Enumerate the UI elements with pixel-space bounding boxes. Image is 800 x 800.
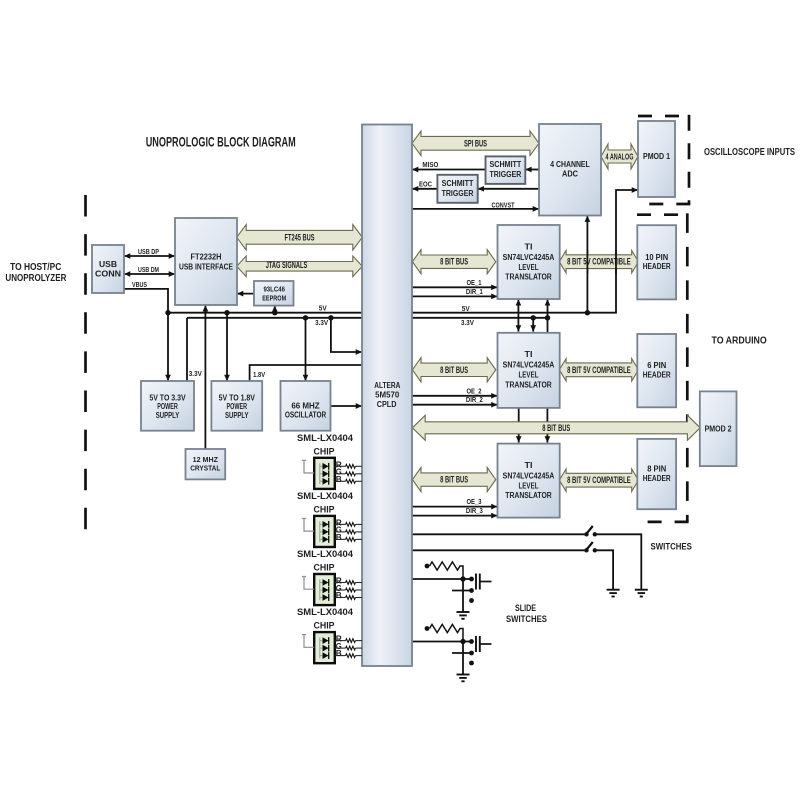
svg-text:LEVEL: LEVEL <box>519 370 539 380</box>
wire: DIR_3 <box>412 515 498 517</box>
bus arrow: FT245 BUS <box>237 225 363 251</box>
svg-text:CPLD: CPLD <box>377 399 397 409</box>
bus arrow: JTAG SIGNALS <box>237 256 363 277</box>
bus arrow: 8 BIT BUS 2 <box>412 358 495 382</box>
wire: 5V to PMOD1 (over bus) <box>615 250 617 273</box>
svg-text:CHIP: CHIP <box>314 563 335 573</box>
wire: oscillator clock out <box>331 405 363 407</box>
svg-text:TI: TI <box>525 241 533 251</box>
wire: 5V rail right to PMOD1 <box>412 190 638 313</box>
wire: 3.3V rail right <box>412 317 548 319</box>
svg-text:CRYSTAL: CRYSTAL <box>190 464 221 473</box>
wire: slide2 crossbar <box>452 652 472 654</box>
svg-text:B: B <box>336 648 342 658</box>
svg-text:SCHMITT: SCHMITT <box>442 178 474 188</box>
4 channel ADC block <box>539 124 601 216</box>
svg-text:CHIP: CHIP <box>314 504 335 514</box>
FT2232H USB interface block <box>175 218 237 305</box>
svg-text:VBUS: VBUS <box>132 280 147 289</box>
svg-text:4 ANALOG: 4 ANALOG <box>606 152 634 162</box>
12 MHz crystal block <box>186 449 226 479</box>
svg-text:5V: 5V <box>319 304 327 313</box>
svg-text:ALTERA: ALTERA <box>374 380 401 390</box>
ALTERA 5M570 CPLD block <box>362 125 412 667</box>
svg-text:OSCILLOSCOPE INPUTS: OSCILLOSCOPE INPUTS <box>704 147 795 158</box>
svg-text:UNOPROLYZER: UNOPROLYZER <box>5 273 67 284</box>
wire: 5V rail left <box>168 312 362 314</box>
wire: oscillator 3.3V feed <box>305 318 307 381</box>
wire: EEPROM 5V feed <box>274 306 276 313</box>
svg-text:CHIP: CHIP <box>314 621 335 631</box>
wire: MISO schmitt1-CPLD <box>412 169 486 171</box>
svg-text:3.3V: 3.3V <box>315 318 328 327</box>
svg-text:SML-LX0404: SML-LX0404 <box>297 607 354 617</box>
svg-text:OE_1: OE_1 <box>467 278 482 287</box>
svg-text:B: B <box>336 532 342 542</box>
wire: VBUS <box>124 289 168 381</box>
PMOD 2 block <box>700 391 737 466</box>
svg-text:SWITCHES: SWITCHES <box>651 542 692 552</box>
svg-text:FT2232H: FT2232H <box>191 252 222 262</box>
bus arrow: 8 BIT 5V COMPATIBLE 1 <box>559 250 638 273</box>
6 pin header block <box>637 334 676 407</box>
93LC46 EEPROM block <box>254 281 294 306</box>
10 pin header block <box>637 225 676 299</box>
wire: slide2 cpld line <box>412 641 463 643</box>
dashed box: arduino side (around headers/PMOD2) <box>637 213 689 216</box>
svg-text:DIR_1: DIR_1 <box>466 287 483 296</box>
wire: 3.3V rail left <box>187 317 362 319</box>
svg-text:HEADER: HEADER <box>643 370 671 380</box>
svg-text:3.3V: 3.3V <box>461 318 474 327</box>
svg-text:OE_2: OE_2 <box>467 386 482 395</box>
wire: slide2 gnd drop <box>462 642 464 675</box>
bus arrow: 8 BIT 5V COMPATIBLE 2 <box>559 359 638 382</box>
svg-text:8 BIT BUS: 8 BIT BUS <box>440 475 468 485</box>
wire: slide1 cpld line <box>412 578 463 580</box>
svg-text:8 BIT 5V COMPATIBLE: 8 BIT 5V COMPATIBLE <box>567 365 631 375</box>
svg-text:SUPPLY: SUPPLY <box>156 410 180 420</box>
svg-text:SN74LVC4245A: SN74LVC4245A <box>503 470 555 480</box>
svg-text:5V: 5V <box>462 304 470 313</box>
svg-text:1.8V: 1.8V <box>253 370 265 379</box>
svg-text:8 BIT BUS: 8 BIT BUS <box>440 365 468 375</box>
wire: T2-T3 vertical B <box>546 408 548 443</box>
svg-text:CONVST: CONVST <box>492 200 515 209</box>
svg-text:8 BIT 5V COMPATIBLE: 8 BIT 5V COMPATIBLE <box>567 257 631 267</box>
svg-text:ADC: ADC <box>562 169 579 179</box>
PMOD 1 block <box>638 121 675 197</box>
8 pin header block <box>637 439 676 509</box>
wire: OE_1 <box>412 286 498 288</box>
wire: DIR_2 <box>412 404 498 406</box>
wire: EOC schmitt2-CPLD <box>412 188 437 190</box>
svg-text:FT245 BUS: FT245 BUS <box>285 232 315 242</box>
wire: 3.3V PS1 output <box>186 318 188 381</box>
svg-text:TRANSLATOR: TRANSLATOR <box>505 379 552 389</box>
wire: slide1 crossbar <box>452 590 472 592</box>
wire: slide1 gnd drop <box>462 579 464 612</box>
wire: slide1 stub <box>463 578 472 580</box>
wire: switch2 line <box>412 549 587 551</box>
svg-text:HEADER: HEADER <box>643 473 671 483</box>
svg-text:SN74LVC4245A: SN74LVC4245A <box>503 252 555 262</box>
5V to 3.3V power supply block <box>141 381 194 431</box>
svg-text:MISO: MISO <box>422 160 438 169</box>
svg-text:CHIP: CHIP <box>314 446 335 456</box>
svg-text:SML-LX0404: SML-LX0404 <box>297 433 354 443</box>
svg-text:TRANSLATOR: TRANSLATOR <box>505 272 552 282</box>
wire: EOC adc-schmitt2 <box>478 188 539 190</box>
svg-text:SML-LX0404: SML-LX0404 <box>297 549 354 559</box>
svg-text:HEADER: HEADER <box>643 261 671 271</box>
wire: T2 3.3V feed <box>532 318 534 332</box>
svg-text:TO ARDUINO: TO ARDUINO <box>712 336 767 347</box>
svg-text:UNOPROLOGIC BLOCK DIAGRAM: UNOPROLOGIC BLOCK DIAGRAM <box>146 134 296 149</box>
svg-text:TRIGGER: TRIGGER <box>490 169 522 179</box>
wire: ADC 5V feed (over bus) <box>586 250 588 273</box>
bus arrow: 4 ANALOG <box>601 144 638 169</box>
ground slide switch 1 <box>457 611 470 613</box>
svg-text:TRIGGER: TRIGGER <box>442 188 474 198</box>
ground switch2 <box>607 589 620 591</box>
wire: switch1 out <box>595 534 642 589</box>
bus arrow: SPI BUS <box>412 131 539 156</box>
svg-text:93LC46: 93LC46 <box>263 285 285 294</box>
svg-text:SUPPLY: SUPPLY <box>225 410 249 420</box>
slide switch symbol 2 <box>475 636 477 652</box>
wire: slide1 pullup corner <box>460 566 464 579</box>
TI SN74LVC4245A level translator 1 block <box>498 225 560 299</box>
svg-text:B: B <box>336 474 342 484</box>
dashed box: oscilloscope inputs (around PMOD1) <box>638 115 690 118</box>
svg-text:SLIDE: SLIDE <box>515 603 536 613</box>
wire: USB DM <box>124 273 175 275</box>
5V to 1.8V power supply block <box>211 381 262 431</box>
bus arrow: 8 BIT BUS to PMOD2 <box>412 415 700 440</box>
svg-text:B: B <box>336 590 342 600</box>
svg-text:8 BIT 5V COMPATIBLE: 8 BIT 5V COMPATIBLE <box>567 475 631 485</box>
svg-text:CONN: CONN <box>95 268 121 278</box>
svg-text:8 BIT BUS: 8 BIT BUS <box>542 423 570 433</box>
ground slide switch 2 <box>457 674 470 676</box>
LED chip SML-LX0404 #3 <box>314 574 335 605</box>
svg-text:OSCILLATOR: OSCILLATOR <box>285 410 327 420</box>
wire: switch1 line <box>412 533 587 535</box>
schmitt trigger 2 block <box>437 175 477 203</box>
bus arrow: 8 BIT 5V COMPATIBLE 3 <box>559 469 638 492</box>
wire: CONVST <box>412 208 539 210</box>
svg-text:SPI BUS: SPI BUS <box>464 138 487 148</box>
slide switch symbol 1 <box>475 574 477 590</box>
wire: DIR_1 <box>412 295 498 297</box>
TI SN74LVC4245A level translator 3 block <box>498 444 560 518</box>
svg-text:LEVEL: LEVEL <box>519 262 539 272</box>
wire: OE_3 <box>412 506 498 508</box>
wire: switch1 blade <box>586 526 593 534</box>
TI SN74LVC4245A level translator 2 block <box>498 333 560 408</box>
wire: MISO adc-schmitt1 <box>525 169 539 171</box>
svg-text:TO HOST/PC: TO HOST/PC <box>10 262 61 273</box>
LED chip SML-LX0404 #2 <box>314 516 335 547</box>
wire: 3.3V to CPLD <box>331 318 362 352</box>
wire: slide2 stub <box>463 641 472 643</box>
schmitt trigger 1 block <box>486 156 526 184</box>
svg-text:12 MHZ: 12 MHZ <box>193 455 219 464</box>
svg-text:LEVEL: LEVEL <box>519 480 539 490</box>
dashed boundary: host/pc separator <box>84 195 87 545</box>
wire: T1 power B <box>547 299 549 333</box>
svg-text:EEPROM: EEPROM <box>262 293 286 302</box>
svg-text:USB DP: USB DP <box>138 247 159 256</box>
svg-text:SML-LX0404: SML-LX0404 <box>297 491 354 501</box>
LED chip SML-LX0404 #1 <box>314 458 335 489</box>
wire: switch2 out <box>595 550 613 589</box>
USB CONN block <box>92 245 124 293</box>
svg-text:USB: USB <box>99 259 117 269</box>
wire: crystal to FT2232H <box>204 305 206 449</box>
svg-text:DIR_2: DIR_2 <box>466 395 483 404</box>
wire: EEPROM to FT2232H <box>237 293 254 295</box>
wire: USB DP <box>124 255 175 257</box>
svg-text:TI: TI <box>525 349 533 359</box>
svg-text:3.3V: 3.3V <box>189 369 202 378</box>
svg-text:USB DM: USB DM <box>138 265 159 274</box>
66 MHz oscillator block <box>281 381 331 431</box>
wire: T1 power A <box>517 299 519 331</box>
svg-text:8 BIT BUS: 8 BIT BUS <box>440 257 468 267</box>
svg-text:TRANSLATOR: TRANSLATOR <box>505 490 552 500</box>
svg-text:JTAG SIGNALS: JTAG SIGNALS <box>266 260 308 270</box>
svg-text:TI: TI <box>525 460 533 470</box>
svg-text:OE_3: OE_3 <box>467 497 482 506</box>
wire: PS2 5V feed <box>226 313 228 381</box>
svg-text:DIR_3: DIR_3 <box>466 506 483 515</box>
svg-text:SCHMITT: SCHMITT <box>490 159 522 169</box>
svg-text:USB INTERFACE: USB INTERFACE <box>179 262 233 272</box>
svg-text:SN74LVC4245A: SN74LVC4245A <box>503 360 555 370</box>
wire: T2-T3 vertical A <box>518 408 520 443</box>
wire: OE_2 <box>412 395 498 397</box>
ground switch1 <box>635 589 648 591</box>
wire: ADC 5V feed <box>586 216 588 313</box>
wire: switch2 blade <box>586 542 593 550</box>
svg-text:PMOD 2: PMOD 2 <box>705 424 732 434</box>
bus arrow: 8 BIT BUS 1 <box>412 250 495 274</box>
wire: slide2 pullup corner <box>460 629 464 642</box>
bus arrow: 8 BIT BUS 3 <box>412 468 495 492</box>
LED chip SML-LX0404 #4 <box>314 632 335 663</box>
wire: 1.8V to CPLD <box>250 365 362 381</box>
svg-text:EOC: EOC <box>419 180 432 189</box>
svg-text:SWITCHES: SWITCHES <box>506 614 547 624</box>
svg-text:PMOD 1: PMOD 1 <box>643 151 670 161</box>
